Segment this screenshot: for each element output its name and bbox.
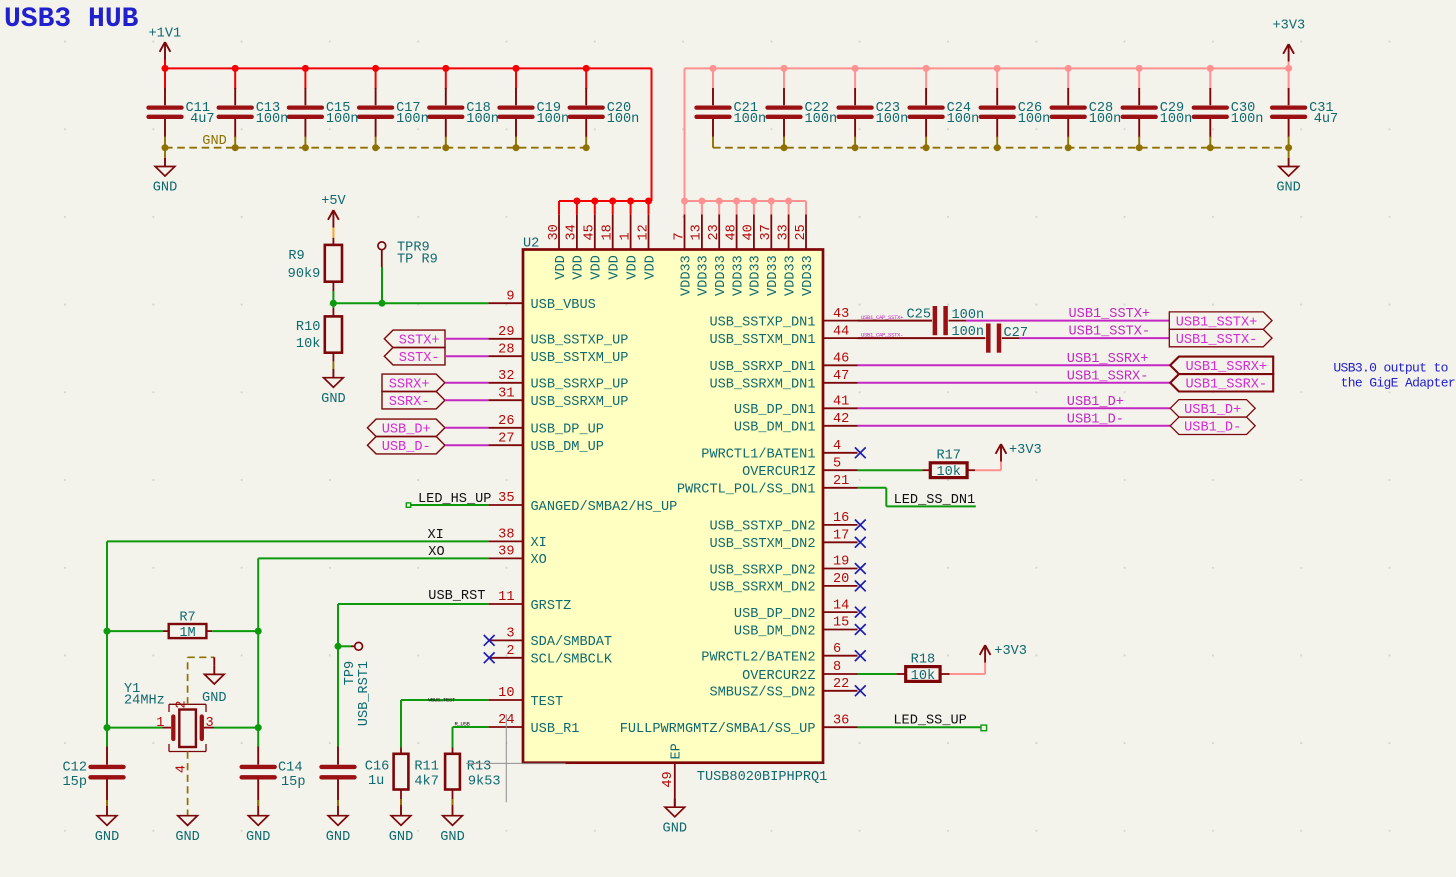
- svg-text:VDD33: VDD33: [679, 255, 694, 296]
- svg-text:SCL/SMBCLK: SCL/SMBCLK: [531, 653, 613, 668]
- capacitor C13: [219, 88, 289, 138]
- svg-text:GND: GND: [153, 181, 177, 196]
- svg-text:20: 20: [833, 572, 849, 587]
- capacitor C26: [981, 88, 1051, 138]
- power flag +5V: [321, 194, 346, 227]
- svg-text:9k53: 9k53: [468, 774, 501, 789]
- svg-text:3: 3: [206, 716, 214, 731]
- wire GND stem left bank: [164, 148, 166, 158]
- svg-text:100n: 100n: [607, 112, 640, 127]
- IC U2 body: [523, 237, 827, 786]
- wire R9 to node: [332, 291, 334, 303]
- svg-text:USB1_CAP_SSTX-: USB1_CAP_SSTX-: [861, 331, 903, 338]
- svg-text:15: 15: [833, 616, 849, 631]
- svg-text:SSTX-: SSTX-: [399, 351, 440, 366]
- svg-text:PWRCTL1/BATEN1: PWRCTL1/BATEN1: [701, 448, 815, 463]
- svg-text:39: 39: [498, 545, 514, 560]
- hier label SSTX-: [384, 348, 445, 367]
- svg-text:PWRCTL_POL/SS_DN1: PWRCTL_POL/SS_DN1: [677, 483, 816, 498]
- wire R10 to GND: [332, 362, 334, 369]
- no-connect pin 15: [855, 624, 866, 635]
- IC U2 right pin 44 USB_SSTXM_DN1: [709, 324, 857, 348]
- wire GND stem right bank: [1288, 148, 1290, 158]
- wire C27 to USB1_SSTX-: [1019, 337, 1169, 339]
- svg-text:VDD33: VDD33: [731, 255, 746, 296]
- svg-text:100n: 100n: [466, 112, 499, 127]
- svg-text:GND: GND: [663, 822, 687, 837]
- wire pin47 USB1_SSRX-: [858, 382, 1171, 384]
- svg-text:USB_DP_DN1: USB_DP_DN1: [734, 403, 816, 418]
- svg-text:USB_SSRXP_UP: USB_SSRXP_UP: [531, 378, 629, 393]
- svg-text:GND: GND: [202, 691, 226, 706]
- note USB3.0 output: [1333, 360, 1455, 390]
- wire cap top leads +1V1: [165, 68, 586, 89]
- wire cap bottom leads to GND bus right: [713, 137, 1289, 148]
- svg-text:USB_DM_UP: USB_DM_UP: [531, 440, 604, 455]
- svg-text:USB1_D+: USB1_D+: [1067, 395, 1124, 410]
- capacitor C17: [359, 88, 429, 138]
- IC U2 left pin 24 USB_R1: [488, 713, 579, 737]
- svg-text:SSRX-: SSRX-: [389, 395, 430, 410]
- IC U2 left pin 3 SDA/SMBDAT: [488, 627, 612, 651]
- svg-text:31: 31: [498, 386, 514, 401]
- wire Y1 pin2 GND stem: [213, 657, 215, 665]
- svg-text:VDD: VDD: [572, 255, 587, 279]
- svg-text:45: 45: [583, 224, 598, 240]
- IC U2 right pin 46 USB_SSRXP_DN1: [709, 352, 857, 376]
- svg-text:USB_SSTXP_DN1: USB_SSTXP_DN1: [709, 315, 815, 330]
- svg-text:C25: C25: [907, 307, 931, 322]
- svg-text:46: 46: [833, 352, 849, 367]
- svg-text:TP R9: TP R9: [397, 253, 438, 268]
- IC U2 left pin 38 XI: [488, 528, 546, 552]
- wire Y1 pin2 to GND dashed: [188, 657, 215, 704]
- IC U2 VDD33 pins 7/13/23/48/40/37/33/25: [672, 201, 816, 296]
- svg-text:USB_DM_DN2: USB_DM_DN2: [734, 624, 816, 639]
- capacitor C31: [1272, 88, 1338, 138]
- svg-text:100n: 100n: [876, 112, 909, 127]
- wire cap top leads +3V3: [713, 68, 1289, 89]
- svg-text:GND: GND: [321, 392, 345, 407]
- svg-text:GND: GND: [175, 830, 199, 845]
- power flag +3V3 (R18): [980, 644, 1027, 663]
- svg-text:R_USB: R_USB: [455, 721, 471, 728]
- svg-text:GND: GND: [95, 830, 119, 845]
- svg-text:9: 9: [506, 289, 514, 304]
- wire SSRX- to pin31: [445, 399, 489, 401]
- svg-text:VDD33: VDD33: [766, 255, 781, 296]
- hier label USB1_D+: [1170, 400, 1255, 419]
- svg-text:100n: 100n: [947, 112, 980, 127]
- svg-text:USB_SSTXP_DN2: USB_SSTXP_DN2: [709, 520, 815, 535]
- svg-text:USB1_SSTX+: USB1_SSTX+: [1069, 307, 1151, 322]
- resistor R7: [107, 610, 258, 641]
- svg-text:100n: 100n: [326, 112, 359, 127]
- svg-text:GND: GND: [1276, 181, 1300, 196]
- svg-text:USB_SSTXM_DN1: USB_SSTXM_DN1: [709, 333, 815, 348]
- svg-text:VDD: VDD: [554, 255, 569, 279]
- svg-text:90k9: 90k9: [288, 267, 321, 282]
- svg-text:R13: R13: [467, 760, 491, 775]
- capacitor C24: [910, 88, 980, 138]
- ground GND (EP): [663, 799, 687, 837]
- junction node TPR9: [379, 300, 386, 307]
- hier label USB1_SSRX-: [1170, 374, 1273, 393]
- svg-text:22: 22: [833, 677, 849, 692]
- wire pin43 to C25: [858, 320, 933, 322]
- svg-text:10k: 10k: [911, 669, 935, 684]
- svg-text:XI: XI: [531, 536, 547, 551]
- svg-text:TUSB8020BIPHPRQ1: TUSB8020BIPHPRQ1: [697, 770, 828, 785]
- wire +3V3 rail: [685, 62, 1289, 202]
- capacitor C15: [289, 88, 359, 138]
- IC U2 left pin 29 USB_SSTXP_UP: [488, 325, 628, 349]
- wire USB_R1 net: [453, 727, 489, 748]
- svg-text:R10: R10: [296, 320, 320, 335]
- svg-text:USB1_SSRX+: USB1_SSRX+: [1186, 360, 1268, 375]
- svg-text:+3V3: +3V3: [1273, 18, 1306, 33]
- no-connect pin 2: [484, 652, 495, 663]
- IC U2 left pin 39 XO: [488, 545, 546, 569]
- IC U2 right pin 43 USB_SSTXP_DN1: [709, 307, 857, 331]
- junction Y1 pin1: [104, 724, 111, 731]
- no-connect pin 14: [855, 607, 866, 618]
- ground GND (C16): [326, 807, 350, 845]
- wire USB_VBUS node: [333, 302, 488, 304]
- power flag +1V1: [149, 27, 182, 60]
- svg-text:47: 47: [833, 369, 849, 384]
- svg-text:GRSTZ: GRSTZ: [531, 599, 572, 614]
- svg-text:8: 8: [833, 660, 841, 675]
- svg-text:100n: 100n: [805, 112, 838, 127]
- hier label USB1_SSTX-: [1169, 329, 1272, 348]
- wire R17 to +3V3: [975, 462, 1001, 471]
- svg-text:LED_SS_UP: LED_SS_UP: [893, 713, 966, 728]
- IC U2 left pin 35 GANGED/SMBA2/HS_UP: [488, 491, 677, 515]
- resistor R17 10k: [922, 449, 975, 481]
- svg-text:GND: GND: [246, 830, 270, 845]
- no-connect pin 6: [855, 650, 866, 661]
- IC U2 right pin 5 OVERCUR1Z: [742, 456, 857, 480]
- svg-text:GND: GND: [326, 830, 350, 845]
- wire +1V1 rail: [165, 60, 652, 202]
- svg-text:FULLPWRMGMTZ/SMBA1/SS_UP: FULLPWRMGMTZ/SMBA1/SS_UP: [620, 722, 816, 737]
- wire XO: [258, 558, 488, 631]
- no-connect pin 19: [855, 563, 866, 574]
- wire VDD rail: [559, 200, 652, 202]
- svg-text:C14: C14: [278, 761, 302, 776]
- wire XO column: [257, 631, 259, 746]
- svg-text:34: 34: [565, 224, 580, 240]
- IC U2 right pin 20 USB_SSRXM_DN2: [709, 572, 857, 596]
- no-connect pin 22: [855, 685, 866, 696]
- wire TPR9 to node: [381, 267, 383, 303]
- capacitor C18: [429, 88, 499, 138]
- junction TP9 node: [335, 643, 342, 650]
- svg-text:SSRX+: SSRX+: [389, 378, 430, 393]
- resistor R18 10k: [896, 652, 949, 684]
- ground GND (right bank): [1276, 158, 1300, 196]
- power flag +3V3 (R17): [996, 443, 1042, 461]
- svg-text:1u: 1u: [368, 774, 384, 789]
- svg-text:1M: 1M: [179, 626, 195, 641]
- capacitor C28: [1052, 88, 1122, 138]
- wire VDD33 rail: [685, 200, 807, 202]
- capacitor C25 100n: [907, 306, 985, 335]
- svg-text:10k: 10k: [296, 337, 320, 352]
- junction dots +3V3 rail: [710, 65, 1293, 72]
- wire Y1 pin4 to GND dashed: [187, 752, 189, 816]
- svg-text:VDD33: VDD33: [697, 255, 712, 296]
- IC U2 right pin 22 SMBUSZ/SS_DN2: [709, 677, 857, 701]
- capacitor C29: [1123, 88, 1193, 138]
- capacitor C12 15p: [63, 747, 124, 808]
- junction dots +1V1 rail: [162, 65, 590, 72]
- no-connect pin 3: [484, 635, 495, 646]
- svg-text:1: 1: [618, 232, 633, 240]
- svg-text:49: 49: [661, 771, 676, 787]
- svg-text:4k7: 4k7: [414, 774, 438, 789]
- wire pin44 to C27: [858, 337, 986, 339]
- IC U2 right pin 4 PWRCTL1/BATEN1: [701, 439, 857, 463]
- resistor R11 4k7: [394, 748, 439, 808]
- hier label USB_D+: [367, 419, 445, 438]
- junction R7 left: [104, 628, 111, 635]
- svg-text:OVERCUR2Z: OVERCUR2Z: [742, 669, 815, 684]
- svg-text:48: 48: [724, 224, 739, 240]
- svg-text:USB_D+: USB_D+: [382, 423, 431, 438]
- svg-text:C12: C12: [63, 761, 87, 776]
- svg-text:USB1_SSRX+: USB1_SSRX+: [1067, 352, 1149, 367]
- svg-text:35: 35: [498, 491, 514, 506]
- wire USB_D- to pin27: [445, 444, 489, 446]
- no-connect pin 17: [855, 537, 866, 548]
- hier label USB1_D-: [1170, 417, 1255, 436]
- ground GND (R13): [440, 807, 464, 845]
- IC U2 left pin 10 TEST: [488, 686, 563, 710]
- capacitor C27 100n: [951, 324, 1028, 353]
- hier label USB1_SSRX+: [1170, 357, 1273, 376]
- svg-text:19: 19: [833, 555, 849, 570]
- svg-text:28: 28: [498, 342, 514, 357]
- hier label SSRX+: [382, 374, 445, 393]
- svg-text:6: 6: [833, 642, 841, 657]
- IC U2 right pin 6 PWRCTL2/BATEN2: [701, 642, 857, 666]
- svg-text:25: 25: [794, 224, 809, 240]
- svg-text:the GigE Adapter: the GigE Adapter: [1341, 376, 1455, 391]
- ground GND (left bank): [153, 158, 177, 196]
- wire pin46 USB1_SSRX+: [858, 364, 1171, 366]
- capacitor C14 15p: [242, 747, 306, 808]
- svg-text:USB1_SSTX-: USB1_SSTX-: [1069, 325, 1151, 340]
- no-connect pin 4: [855, 447, 866, 458]
- svg-text:3: 3: [506, 627, 514, 642]
- svg-text:VDD33: VDD33: [749, 255, 764, 296]
- svg-text:USB3 HUB: USB3 HUB: [4, 4, 139, 35]
- svg-text:5: 5: [833, 456, 841, 471]
- svg-text:R18: R18: [911, 652, 935, 667]
- svg-text:USB_D-: USB_D-: [382, 440, 431, 455]
- svg-text:38: 38: [498, 528, 514, 543]
- resistor R9: [288, 238, 342, 291]
- svg-text:USB_RST1: USB_RST1: [357, 661, 372, 726]
- svg-text:+5V: +5V: [321, 194, 346, 209]
- svg-text:LED_SS_DN1: LED_SS_DN1: [894, 493, 976, 508]
- IC U2 left pin 31 USB_SSRXM_UP: [488, 386, 628, 410]
- no-connect pin 16: [855, 520, 866, 531]
- svg-text:VDD: VDD: [608, 255, 623, 279]
- svg-text:100n: 100n: [1089, 112, 1122, 127]
- IC U2 left pin 2 SCL/SMBCLK: [488, 644, 613, 668]
- svg-text:USB_DP_UP: USB_DP_UP: [531, 423, 604, 438]
- svg-text:GND: GND: [202, 134, 226, 149]
- ground GND (R10): [321, 369, 345, 407]
- svg-text:USB_R1: USB_R1: [531, 722, 580, 737]
- svg-text:VBUS_TEST: VBUS_TEST: [428, 696, 456, 703]
- IC U2 right pin 16 USB_SSTXP_DN2: [709, 511, 857, 535]
- svg-text:USB_SSTXM_UP: USB_SSTXM_UP: [531, 351, 629, 366]
- svg-text:USB_SSTXP_UP: USB_SSTXP_UP: [531, 334, 629, 349]
- svg-text:USB_VBUS: USB_VBUS: [531, 298, 596, 313]
- IC U2 right pin 42 USB_DM_DN1: [734, 412, 858, 436]
- wire LED_HS_UP: [406, 503, 488, 507]
- svg-text:7: 7: [672, 232, 687, 240]
- svg-text:4u7: 4u7: [1314, 112, 1338, 127]
- ground GND (R11): [389, 807, 413, 845]
- svg-text:USB1_SSTX+: USB1_SSTX+: [1176, 315, 1258, 330]
- svg-text:USB_RST: USB_RST: [428, 589, 485, 604]
- IC U2 right pin 41 USB_DP_DN1: [734, 395, 858, 419]
- junction Y1 pin3: [255, 724, 262, 731]
- svg-text:GANGED/SMBA2/HS_UP: GANGED/SMBA2/HS_UP: [531, 500, 678, 515]
- svg-text:15p: 15p: [281, 775, 305, 790]
- svg-text:TP9: TP9: [343, 661, 358, 685]
- capacitor C23: [839, 88, 909, 138]
- svg-text:USB_DP_DN2: USB_DP_DN2: [734, 607, 816, 622]
- svg-text:USB_SSRXP_DN2: USB_SSRXP_DN2: [709, 563, 815, 578]
- svg-text:24MHz: 24MHz: [124, 693, 165, 708]
- IC U2 left pin 9 USB_VBUS: [488, 289, 595, 313]
- IC U2 right pin 8 OVERCUR2Z: [742, 660, 857, 684]
- junction node R9/R10: [330, 300, 337, 307]
- capacitor C22: [768, 88, 838, 138]
- svg-text:10k: 10k: [936, 465, 960, 480]
- svg-text:33: 33: [776, 224, 791, 240]
- svg-text:R9: R9: [288, 249, 304, 264]
- capacitor C30: [1194, 88, 1264, 138]
- svg-text:23: 23: [707, 224, 722, 240]
- svg-text:13: 13: [690, 224, 705, 240]
- wire XI column: [106, 631, 108, 746]
- svg-text:VDD33: VDD33: [714, 255, 729, 296]
- svg-text:+1V1: +1V1: [149, 27, 182, 42]
- ground GND (Y1 pin4): [175, 816, 199, 845]
- svg-text:17: 17: [833, 529, 849, 544]
- svg-text:+3V3: +3V3: [1009, 443, 1042, 458]
- svg-text:+3V3: +3V3: [994, 644, 1027, 659]
- svg-text:VDD: VDD: [643, 255, 658, 279]
- no-connect pin 20: [855, 581, 866, 592]
- svg-text:11: 11: [498, 590, 514, 605]
- svg-text:SMBUSZ/SS_DN2: SMBUSZ/SS_DN2: [709, 686, 815, 701]
- power flag +3V3 (top right): [1273, 18, 1306, 61]
- cursor crosshair: [466, 714, 566, 802]
- IC U2 pin 49 EP: [661, 743, 684, 807]
- testpoint TP9 USB_RST1: [338, 642, 372, 726]
- IC U2 right pin 14 USB_DP_DN2: [734, 598, 858, 622]
- svg-text:30: 30: [547, 224, 562, 240]
- junction dots VDD rail: [573, 198, 652, 205]
- IC U2 left pin 11 GRSTZ: [488, 590, 571, 614]
- svg-text:OVERCUR1Z: OVERCUR1Z: [742, 465, 815, 480]
- svg-text:VDD33: VDD33: [783, 255, 798, 296]
- svg-text:VDD: VDD: [625, 255, 640, 279]
- svg-text:R7: R7: [179, 610, 195, 625]
- wire SSRX+ to pin32: [445, 382, 489, 384]
- wire +5V orange segment: [332, 228, 334, 238]
- svg-text:29: 29: [498, 325, 514, 340]
- hier label SSTX+: [384, 330, 445, 349]
- svg-text:USB_SSRXP_DN1: USB_SSRXP_DN1: [709, 360, 815, 375]
- wire cap bottom leads to GND bus left: [165, 137, 586, 148]
- svg-text:U2: U2: [523, 237, 539, 252]
- ground GND (C12): [95, 807, 119, 845]
- hier label USB_D-: [367, 437, 445, 456]
- wire SSTX+ to pin29: [445, 338, 488, 340]
- svg-text:27: 27: [498, 431, 514, 446]
- svg-text:USB_SSTXM_DN2: USB_SSTXM_DN2: [709, 537, 815, 552]
- resistor R13 9k53: [445, 748, 500, 808]
- svg-text:40: 40: [742, 224, 757, 240]
- svg-text:USB1_D-: USB1_D-: [1067, 412, 1124, 427]
- wire pin42 USB1_D-: [858, 425, 1171, 427]
- wire USB_RST: [338, 604, 488, 646]
- hier label USB1_SSTX+: [1169, 312, 1272, 331]
- svg-text:SSTX+: SSTX+: [399, 334, 440, 349]
- wire TEST net: [401, 700, 488, 748]
- wire pin8 to R18: [858, 673, 897, 675]
- wire USB_D+ to pin26: [445, 427, 489, 429]
- ground GND (Y1 pin2): [202, 666, 226, 706]
- svg-text:USB1_SSRX-: USB1_SSRX-: [1186, 378, 1268, 393]
- svg-text:100n: 100n: [1231, 112, 1264, 127]
- svg-text:GND: GND: [389, 830, 413, 845]
- svg-text:100n: 100n: [1160, 112, 1193, 127]
- svg-text:PWRCTL2/BATEN2: PWRCTL2/BATEN2: [701, 651, 815, 666]
- wire LED_SS_DN1: [858, 488, 976, 507]
- svg-text:18: 18: [601, 224, 616, 240]
- junction dots GND bus right: [781, 144, 1293, 151]
- svg-text:R17: R17: [936, 449, 960, 464]
- svg-text:21: 21: [833, 474, 849, 489]
- wire LED_SS_UP: [858, 725, 987, 731]
- svg-text:43: 43: [833, 307, 849, 322]
- resistor R10: [296, 303, 342, 361]
- svg-text:USB1_D-: USB1_D-: [1184, 421, 1241, 436]
- svg-text:32: 32: [498, 369, 514, 384]
- wire TP9 column: [337, 646, 339, 746]
- svg-text:USB_DM_DN1: USB_DM_DN1: [734, 421, 816, 436]
- svg-text:42: 42: [833, 412, 849, 427]
- capacitor C20: [570, 88, 640, 138]
- testpoint TPR9: [378, 241, 438, 268]
- IC U2 right pin 36 FULLPWRMGMTZ/SMBA1/SS_UP: [620, 713, 858, 737]
- svg-text:EP: EP: [670, 743, 685, 759]
- svg-text:1: 1: [156, 716, 164, 731]
- svg-text:USB1_CAP_SSTX+: USB1_CAP_SSTX+: [861, 314, 904, 321]
- wire GND dashed bus left: [165, 147, 586, 149]
- svg-text:37: 37: [759, 224, 774, 240]
